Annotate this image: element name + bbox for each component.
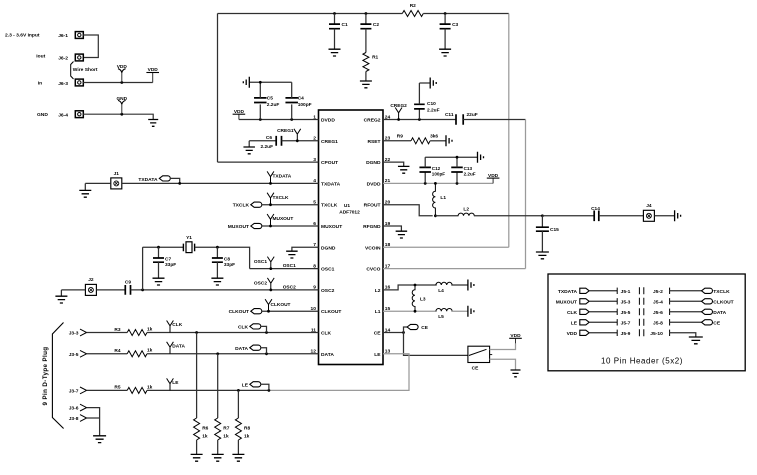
svg-text:1k: 1k: [202, 434, 208, 440]
ground below R6: [191, 454, 203, 461]
svg-text:DATA: DATA: [713, 310, 726, 316]
svg-text:VDD: VDD: [148, 67, 159, 73]
wire crystal top net: [143, 246, 184, 248]
connector pin J3-8: [69, 415, 87, 422]
wire CLKOUT tag to pin 10: [262, 310, 319, 312]
wire C11 to CVCO vertical: [463, 119, 525, 121]
capacitor C13 2.2uF: [451, 157, 476, 183]
svg-text:CREG1: CREG1: [321, 139, 338, 145]
svg-text:33pF: 33pF: [165, 262, 176, 268]
svg-text:100pF: 100pF: [298, 102, 312, 108]
svg-text:DVDD: DVDD: [321, 118, 335, 124]
svg-text:R8: R8: [244, 426, 250, 432]
ground below C7: [153, 278, 165, 285]
wire LE tag elbow: [261, 384, 269, 390]
wire J5-4 to tag CLKOUT: [670, 300, 702, 302]
svg-text:GND: GND: [116, 96, 127, 102]
svg-text:LE: LE: [374, 352, 381, 358]
node CE junction: [402, 331, 405, 334]
capacitor C12 100pF: [419, 157, 445, 183]
node OSC2 flag junction: [269, 289, 272, 292]
resistor R8 1k pulldown: [235, 390, 250, 454]
svg-text:C1: C1: [342, 22, 348, 28]
svg-text:2.3 - 3.6V Input: 2.3 - 3.6V Input: [5, 33, 40, 39]
svg-text:1k: 1k: [147, 348, 153, 354]
svg-text:DGND: DGND: [321, 245, 336, 251]
svg-text:C8: C8: [224, 256, 230, 262]
svg-text:J6-4: J6-4: [58, 113, 68, 119]
svg-text:R2: R2: [410, 3, 416, 9]
power VDD at end of J6-3 wire: [146, 67, 159, 82]
svg-text:J3-8: J3-8: [69, 416, 79, 422]
tag DATA: [235, 345, 261, 352]
header pins double bars: [639, 298, 643, 305]
wire C6 to CREG1 pin 2: [282, 140, 319, 142]
power VDD tap at J6-3 wire: [117, 64, 128, 82]
wire CE pin 14: [383, 332, 404, 334]
node junction L3 top: [414, 284, 417, 287]
svg-text:100pF: 100pF: [432, 172, 445, 177]
connector pin J3-3: [69, 329, 87, 336]
svg-text:C11: C11: [445, 112, 454, 118]
svg-text:CLK: CLK: [321, 331, 332, 337]
node junction C13 bottom: [456, 182, 459, 185]
svg-text:CE: CE: [374, 331, 382, 337]
inductor L2: [458, 206, 474, 216]
wire CE elbow to tag: [404, 327, 408, 333]
svg-text:J6-3: J6-3: [58, 81, 68, 87]
wire DGND pin 22: [383, 162, 404, 166]
svg-text:J3-5: J3-5: [69, 352, 79, 358]
svg-text:LE: LE: [172, 380, 179, 386]
svg-text:CE: CE: [421, 325, 428, 331]
svg-text:3k6: 3k6: [430, 133, 438, 139]
svg-text:J6-1: J6-1: [58, 33, 68, 39]
svg-text:C3: C3: [452, 22, 458, 28]
wire OSC1 corner to pin 8: [250, 268, 319, 270]
tag DATA header right: [702, 309, 713, 314]
connector J2: [85, 284, 96, 295]
wire switch top contact to VDD: [490, 343, 516, 349]
node junction C8: [216, 246, 219, 249]
svg-text:MUXOUT: MUXOUT: [273, 216, 294, 222]
svg-text:C2: C2: [373, 22, 379, 28]
svg-text:U1: U1: [344, 203, 350, 209]
svg-text:R1: R1: [372, 55, 378, 61]
wire crystal to OSC1 corner: [195, 247, 250, 268]
node junction VDD tap on J6-3 wire: [120, 81, 123, 84]
svg-text:VCOIN: VCOIN: [365, 245, 381, 251]
power VDD at CE switch: [509, 333, 522, 343]
svg-text:1k: 1k: [147, 326, 153, 332]
svg-text:1k: 1k: [223, 434, 229, 440]
svg-text:TXDATA: TXDATA: [138, 177, 158, 183]
net flag CLKOUT: [265, 299, 290, 311]
resistor R6 1k pulldown: [194, 333, 209, 455]
connector pad J6-4: [58, 111, 83, 119]
ground at RFGND: [396, 231, 408, 238]
node junction C15: [541, 214, 544, 217]
svg-text:R6: R6: [202, 426, 208, 432]
tag LE: [242, 382, 261, 389]
svg-text:TXDATA: TXDATA: [273, 174, 292, 180]
svg-text:1k: 1k: [244, 434, 250, 440]
pin tick J5-7: [616, 319, 618, 325]
sideways ground right of L4: [468, 280, 474, 291]
node DATA tag junction: [265, 352, 268, 355]
wire pin 15 L1 row: [383, 310, 437, 312]
svg-text:J5-9: J5-9: [621, 331, 631, 337]
wire loop-filter left vertical from CPOUT pin 3 up to top rail: [217, 14, 219, 163]
svg-text:RSET: RSET: [367, 139, 380, 145]
capacitor C7 33pF: [153, 247, 176, 278]
node MUXOUT flag junction: [269, 225, 272, 228]
net flag MUXOUT on pin 6 wire: [267, 214, 293, 226]
node junction R7 on DATA line: [216, 352, 219, 355]
wire RFGND pin 19: [383, 226, 401, 231]
tag CLKOUT: [229, 309, 262, 316]
svg-text:CLK: CLK: [567, 310, 578, 316]
capacitor C5 2.2uF: [254, 82, 279, 119]
wire TXCLK tag to pin 5: [262, 204, 319, 206]
wire crystal left vertical: [142, 247, 144, 290]
wire LE tag to pin J5-7: [589, 321, 617, 323]
connector pad J6-2: [58, 54, 83, 61]
wire C12/C13 top node: [425, 156, 477, 159]
svg-text:J3-3: J3-3: [69, 331, 79, 337]
svg-text:L2: L2: [463, 206, 469, 212]
tag CE header right: [702, 320, 713, 325]
pin tick J5-2: [669, 288, 671, 294]
svg-text:2.2uF: 2.2uF: [260, 144, 273, 150]
svg-text:CLKOUT: CLKOUT: [229, 309, 249, 315]
wire pin 16 L2 step up: [383, 285, 437, 290]
svg-text:J6-2: J6-2: [58, 56, 68, 62]
svg-text:Wire Short: Wire Short: [73, 67, 98, 73]
net flag OSC1: [254, 257, 274, 269]
svg-text:OSC2: OSC2: [283, 284, 296, 290]
ground at J5-10: [689, 337, 703, 344]
ground below C15: [536, 252, 549, 259]
pin tick J5-5: [616, 309, 618, 315]
svg-text:L4: L4: [438, 288, 444, 294]
pin tick J5-8: [669, 319, 671, 325]
node CREG2 flag junction: [397, 118, 400, 121]
ground left of C6: [243, 141, 255, 154]
svg-text:C6: C6: [266, 135, 272, 141]
svg-text:TXDATA: TXDATA: [321, 181, 341, 187]
svg-text:J5-8: J5-8: [653, 320, 663, 326]
node junction L3 bottom: [414, 310, 417, 313]
svg-text:R9: R9: [397, 133, 403, 139]
wire RF line C15 to C14: [542, 215, 594, 217]
wire L2 to C15 node: [474, 215, 543, 217]
tag TXDATA header left: [580, 288, 589, 293]
wire top rail left segment (CPOUT node to R2): [218, 13, 403, 15]
node junction C5 on DVDD line: [259, 118, 262, 121]
svg-text:VDD: VDD: [234, 109, 245, 115]
svg-text:CREG2: CREG2: [390, 103, 407, 109]
svg-text:CLKOUT: CLKOUT: [271, 302, 291, 308]
node OSC1 flag junction: [269, 267, 272, 270]
svg-text:J5-1: J5-1: [621, 289, 631, 295]
svg-text:1k: 1k: [147, 384, 153, 390]
wire L4 to sideways ground: [451, 284, 468, 286]
svg-text:CLKOUT: CLKOUT: [321, 309, 341, 315]
wire switch bottom contact to ground: [490, 359, 516, 369]
svg-text:DATA: DATA: [321, 352, 334, 358]
wire RFOUT pin 20 step: [383, 205, 433, 216]
wire MUXOUT tag to pin 6: [262, 225, 319, 227]
svg-text:C13: C13: [464, 166, 473, 171]
ground below C1: [329, 49, 341, 56]
wire J2 to ground stub: [61, 289, 85, 291]
node CLKOUT flag junction: [267, 310, 270, 313]
ground below R1: [360, 81, 372, 88]
svg-text:Y1: Y1: [186, 235, 192, 241]
capacitor C9: [125, 279, 131, 294]
wire DVDD pin 1 row: [239, 119, 319, 121]
ground below J3-6/J3-8: [93, 436, 106, 443]
wire J4 to sideways ground: [655, 215, 675, 217]
wire J6-1 to J6-2 loop: [83, 35, 98, 58]
svg-text:MUXOUT: MUXOUT: [228, 224, 249, 230]
tag CE near pin 14: [407, 324, 429, 331]
connector pin J3-5: [69, 350, 87, 357]
wire C14 to J4: [599, 215, 644, 217]
ground below CE switch: [511, 370, 521, 377]
wire CVCO vertical down to pin 17: [525, 120, 527, 269]
sideways ground right of C12/C13 top node: [478, 152, 484, 163]
node junction R8 on LE line: [237, 389, 240, 392]
svg-text:OSC1: OSC1: [283, 263, 296, 269]
resistor R5 1k: [114, 384, 152, 393]
wire short between J6-2 and J6-3: [71, 62, 74, 80]
wire DGND pin 7: [292, 247, 319, 251]
sideways ground right of L5: [468, 306, 474, 317]
tag TXCLK header right: [702, 288, 713, 293]
inductor L4: [436, 282, 452, 294]
power VDD at DVDD pin 1: [233, 109, 246, 120]
sideways ground right of C10 top: [419, 78, 436, 89]
pin tick J5-1: [616, 288, 618, 294]
svg-text:DATA: DATA: [172, 343, 185, 349]
svg-text:J5-5: J5-5: [621, 310, 631, 316]
wire J5-2 to tag TXCLK: [670, 290, 702, 292]
svg-text:C9: C9: [125, 279, 131, 285]
svg-text:C7: C7: [165, 256, 171, 262]
svg-text:CE: CE: [472, 366, 479, 372]
capacitor C3: [440, 12, 459, 49]
capacitor C11 22uF: [445, 112, 478, 125]
capacitor C8 33pF: [212, 247, 235, 278]
wire RF line to L2: [435, 215, 458, 217]
wire CLK tag to pin J5-5: [589, 311, 617, 313]
svg-text:J5-3: J5-3: [621, 299, 631, 305]
resistor R9 3k6: [397, 133, 439, 143]
svg-text:L2: L2: [375, 288, 381, 294]
svg-text:J5-2: J5-2: [653, 289, 663, 295]
node CREG1 flag junction: [296, 139, 299, 142]
wire R5 along LE line: [147, 389, 269, 391]
tag CLK header left: [580, 309, 589, 314]
power VDD at DVDD pin 21: [487, 173, 500, 184]
svg-text:33pF: 33pF: [224, 262, 235, 268]
net flag CLK on line: [167, 321, 183, 333]
svg-text:10 Pin Header (5x2): 10 Pin Header (5x2): [601, 357, 683, 366]
svg-text:OSC1: OSC1: [254, 259, 267, 265]
svg-text:9 Pin D-Type Plug: 9 Pin D-Type Plug: [42, 347, 49, 406]
pin tick J5-4: [669, 298, 671, 304]
wire top rail right segment (R2 to VCOIN corner): [423, 13, 509, 15]
svg-text:CVCO: CVCO: [366, 267, 380, 273]
svg-text:MUXOUT: MUXOUT: [556, 299, 577, 305]
wire DVDD pin 21 row: [383, 182, 493, 184]
tag MUXOUT: [228, 223, 262, 230]
svg-text:TXDATA: TXDATA: [558, 289, 578, 295]
svg-text:CPOUT: CPOUT: [321, 160, 338, 166]
svg-text:TXCLK: TXCLK: [321, 203, 338, 209]
svg-text:LE: LE: [571, 320, 578, 326]
wire CE down to switch: [404, 333, 468, 356]
node LE tag junction: [268, 389, 271, 392]
wire J2 to C9: [97, 289, 126, 291]
sideways ground left of C5/C4 top node: [243, 77, 249, 88]
wire J3-5 to R4: [87, 353, 128, 355]
wire RSET pin 23 to R9: [383, 140, 411, 142]
node CLK tag junction: [265, 331, 268, 334]
svg-text:J5-4: J5-4: [653, 299, 663, 305]
pin tick J5-9: [616, 330, 618, 336]
wire CREG2 pin 24 row to C11: [383, 119, 456, 121]
svg-text:CREG2: CREG2: [364, 118, 381, 124]
svg-text:Iout: Iout: [36, 54, 45, 60]
svg-text:VDD: VDD: [567, 331, 578, 337]
wire R3 to pin 11 CLK: [147, 332, 319, 334]
svg-text:C15: C15: [550, 227, 559, 233]
wire VCOIN vertical down to pin 18: [508, 14, 510, 248]
wire VDD tag to pin J5-9: [589, 332, 617, 334]
connector pad J6-1: [58, 32, 83, 39]
ground below C8: [211, 278, 223, 285]
header pins double bars: [639, 287, 643, 294]
svg-text:CLK: CLK: [172, 322, 182, 328]
svg-text:22uF: 22uF: [467, 112, 478, 118]
svg-text:VDD: VDD: [117, 64, 128, 70]
wire L5 to sideways ground: [451, 310, 468, 312]
capacitor C2: [360, 12, 379, 52]
node junction C7: [157, 246, 160, 249]
svg-text:DVDD: DVDD: [367, 181, 381, 187]
svg-text:GND: GND: [37, 112, 48, 118]
wire C9 to pin 9 OSC2: [131, 289, 319, 291]
svg-text:VDD: VDD: [488, 173, 499, 179]
svg-text:L1: L1: [375, 309, 381, 315]
net flag LE on line: [167, 378, 180, 390]
svg-text:L1: L1: [440, 195, 446, 201]
pin tick J5-3: [616, 298, 618, 304]
10 pin header box: [548, 274, 745, 371]
wire R9 to sideways ground: [430, 140, 446, 142]
ground left of J2: [55, 290, 67, 303]
svg-text:J3-7: J3-7: [69, 388, 79, 394]
resistor R4 1k: [114, 348, 152, 357]
wire J5-8 to tag CE: [670, 321, 702, 323]
svg-text:J4: J4: [646, 203, 652, 209]
svg-text:2.2uF: 2.2uF: [267, 102, 280, 108]
wire J5-10 to ground: [670, 333, 696, 337]
svg-text:R5: R5: [114, 385, 120, 391]
wire J1 to ground stub: [85, 182, 110, 184]
inductor L5: [436, 309, 452, 321]
wire J3-6/J3-8 to ground: [87, 408, 100, 436]
capacitor C4 100pF: [285, 82, 311, 119]
inductor L3 vertical: [412, 285, 426, 311]
capacitor C1: [329, 12, 348, 49]
wire pin 18 VCOIN to vertical: [383, 246, 509, 248]
pin tick J5-10: [669, 330, 671, 336]
svg-text:J5-7: J5-7: [621, 320, 631, 326]
svg-text:2.2uF: 2.2uF: [427, 107, 440, 113]
svg-text:DGND: DGND: [366, 160, 381, 166]
svg-text:C5: C5: [267, 96, 273, 102]
svg-text:MUXOUT: MUXOUT: [321, 224, 342, 230]
resistor R1 below C2: [363, 53, 379, 81]
wire J3-7 to R5: [87, 389, 128, 391]
header pins double bars: [639, 319, 643, 326]
svg-text:LE: LE: [242, 382, 249, 388]
ground at end of J6-4 wire: [148, 120, 158, 127]
wire J5-6 to tag DATA: [670, 311, 702, 313]
header pins double bars: [639, 308, 643, 315]
capacitor C14: [591, 206, 600, 221]
ground below R7: [212, 454, 224, 461]
wire TXDATA line J1 to pin 4: [122, 182, 319, 184]
svg-text:In: In: [38, 81, 42, 87]
wire TXDATA tag elbow: [170, 178, 181, 184]
wire J6-4 to ground: [83, 114, 153, 119]
connector J1: [111, 178, 122, 189]
bracket 9 Pin D-Type Plug: [52, 323, 63, 429]
net flag OSC2: [254, 278, 274, 290]
op-amp U1 ADF7012 IC body: [319, 110, 384, 365]
resistor R7 1k pulldown: [215, 354, 230, 454]
tag MUXOUT header left: [580, 299, 589, 304]
wire pin 17 CVCO: [383, 268, 526, 270]
node junction L1 top: [434, 182, 437, 185]
ground below R8: [232, 454, 244, 461]
svg-text:C12: C12: [432, 166, 441, 171]
svg-text:CLKOUT: CLKOUT: [713, 299, 733, 305]
pin tick J5-6: [669, 309, 671, 315]
node junction R6 on CLK line: [195, 331, 198, 334]
tag TXDATA: [138, 176, 170, 183]
svg-text:RFOUT: RFOUT: [364, 203, 381, 209]
svg-text:L5: L5: [438, 314, 444, 320]
svg-text:L3: L3: [420, 297, 426, 303]
net flag TXDATA on pin 4 wire: [267, 171, 292, 183]
node junction C4 on DVDD line: [290, 118, 293, 121]
net flag CREG2: [390, 103, 407, 120]
inductor L1: [433, 183, 447, 215]
svg-text:C14: C14: [591, 206, 600, 212]
wire CLK tag elbow: [261, 326, 267, 332]
capacitor C15: [536, 216, 559, 252]
svg-text:TXCLK: TXCLK: [273, 195, 290, 201]
svg-text:ADF7012: ADF7012: [339, 209, 360, 215]
svg-text:OSC1: OSC1: [321, 267, 335, 273]
node TXDATA flag junction: [269, 182, 272, 185]
